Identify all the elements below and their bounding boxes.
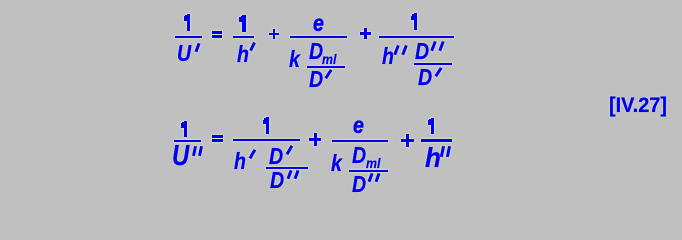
eq1 term4 prime on nested denominator D	[435, 67, 443, 77]
eq2 term2 double prime on denominator D	[287, 169, 289, 171]
eq1 term3 nested fraction bar	[307, 66, 345, 68]
eq2 term3 nested fraction bar	[349, 170, 388, 172]
eq1 term3 fraction bar	[290, 36, 348, 38]
eq2 term1 fraction bar	[174, 140, 202, 142]
eq2 term2 nested numerator D	[269, 145, 283, 168]
eq1 term1 fraction bar	[175, 36, 203, 38]
eq2 term2 prime on numerator D	[286, 145, 293, 155]
eq1 term3 nested denominator D	[309, 68, 323, 91]
eq2 term2 denominator h	[234, 150, 246, 173]
eq2 term4 numerator digit 1	[427, 117, 429, 119]
eq2 term3 double prime on denominator D	[368, 172, 370, 174]
eq2 term2 nested denominator D	[270, 169, 284, 192]
eq2 term4 double prime on h	[440, 145, 442, 147]
eq1 term2 denominator h	[237, 43, 249, 66]
eq2 term3 nested denominator D	[352, 173, 366, 196]
eq1 equals sign	[211, 30, 213, 32]
eq1 term3 prime on denominator D	[325, 69, 333, 79]
eq1 term4 fraction bar	[379, 36, 455, 38]
eq1 term2 fraction bar	[233, 36, 254, 38]
eq1 term4 numerator digit 1	[410, 12, 412, 14]
eq2 term3 numerator e	[353, 114, 364, 137]
eq1 term4 nested fraction bar	[414, 63, 452, 65]
eq1 term1 prime on U	[195, 43, 201, 53]
eq2 term4 fraction bar	[421, 139, 452, 141]
eq1 term4 nested denominator D	[418, 66, 432, 89]
eq2 plus sign 1	[308, 132, 310, 134]
eq2 term3 nested numerator D	[352, 144, 366, 167]
eq2 term4 denominator h	[425, 144, 441, 172]
eq2 term3 fraction bar	[332, 140, 388, 142]
eq1 term3 nested numerator D	[309, 40, 323, 63]
eq1 term4 denominator h	[382, 45, 394, 68]
eq1 term3 numerator e	[313, 12, 324, 35]
eq2 term3 subscript ml	[366, 156, 380, 170]
eq2 plus sign 2	[400, 133, 402, 135]
equation number label [IV.27]	[609, 95, 667, 116]
eq2 term3 coefficient k	[331, 152, 342, 175]
eq1 plus sign 1	[268, 28, 270, 30]
eq1 term4 nested numerator D	[415, 40, 429, 63]
eq1 term1 numerator digit 1	[183, 13, 185, 15]
eq2 term1 double prime on U	[192, 145, 194, 147]
eq1 term3 coefficient k	[289, 48, 300, 71]
eq1 term1 denominator U	[177, 42, 191, 65]
eq2 term2 prime on h	[248, 149, 255, 159]
eq2 term2 fraction bar	[233, 139, 300, 141]
eq1 term4 double prime on numerator D	[431, 40, 433, 42]
eq2 term1 denominator U	[172, 142, 189, 171]
eq2 term2 numerator digit 1	[262, 116, 264, 118]
eq2 term2 nested fraction bar	[266, 167, 308, 169]
eq1 term3 subscript ml	[322, 52, 336, 66]
eq1 term4 double prime on h	[394, 44, 396, 46]
eq1 term2 prime on h	[249, 41, 255, 50]
eq2 term1 numerator digit 1	[180, 120, 182, 122]
eq2 equals sign	[211, 134, 213, 136]
eq1 term2 numerator digit 1	[238, 14, 240, 16]
eq1 plus sign 2	[359, 27, 361, 29]
